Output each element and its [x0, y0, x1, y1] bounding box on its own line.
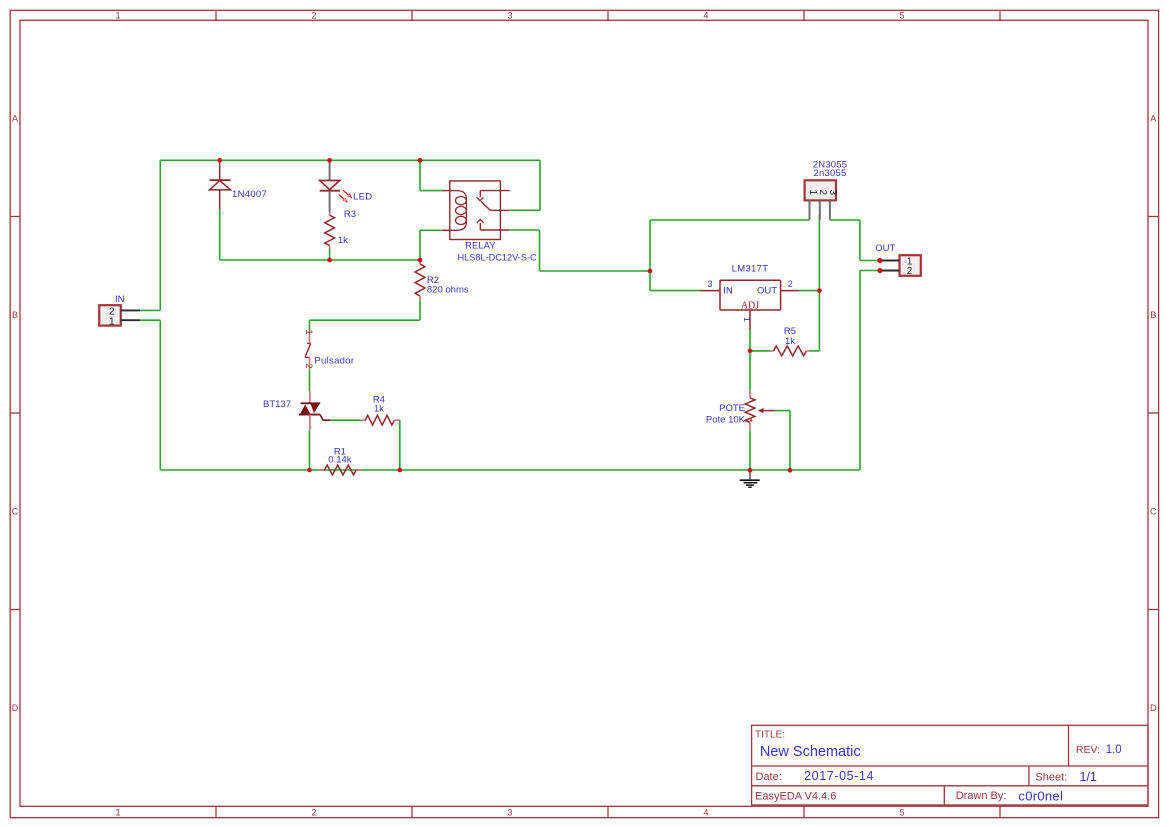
svg-text:OUT: OUT: [875, 243, 895, 254]
svg-text:Drawn By:: Drawn By:: [956, 790, 1007, 802]
svg-text:D: D: [12, 703, 19, 713]
svg-text:C: C: [1150, 507, 1157, 517]
svg-text:OUT: OUT: [757, 285, 777, 296]
svg-text:REV:: REV:: [1076, 744, 1100, 756]
svg-text:Pulsador: Pulsador: [314, 356, 354, 367]
svg-text:1: 1: [115, 11, 120, 21]
svg-text:820 ohms: 820 ohms: [427, 284, 469, 295]
svg-text:A: A: [12, 114, 18, 124]
svg-text:TITLE:: TITLE:: [755, 730, 785, 741]
svg-text:2: 2: [311, 11, 316, 21]
svg-text:Date:: Date:: [756, 771, 782, 783]
svg-text:0.14k: 0.14k: [328, 455, 351, 466]
svg-text:4: 4: [703, 11, 708, 21]
svg-text:1k: 1k: [338, 235, 348, 246]
svg-text:1k: 1k: [374, 404, 384, 415]
svg-text:2n3055: 2n3055: [814, 168, 847, 179]
svg-text:LED: LED: [353, 192, 372, 203]
svg-text:ADJ: ADJ: [741, 300, 759, 311]
svg-text:1/1: 1/1: [1080, 770, 1097, 784]
svg-text:C: C: [12, 507, 19, 517]
svg-text:2: 2: [788, 279, 793, 289]
svg-text:D: D: [1150, 703, 1157, 713]
svg-text:1: 1: [807, 190, 818, 196]
svg-text:HLS8L-DC12V-S-C: HLS8L-DC12V-S-C: [458, 252, 538, 262]
svg-text:POTE: POTE: [719, 403, 745, 414]
svg-text:R3: R3: [344, 209, 356, 220]
svg-text:1: 1: [742, 317, 752, 322]
svg-text:1N4007: 1N4007: [232, 189, 267, 200]
svg-text:2017-05-14: 2017-05-14: [804, 769, 874, 783]
svg-text:IN: IN: [723, 285, 733, 296]
svg-text:Pote 10K: Pote 10K: [706, 415, 746, 426]
svg-text:5: 5: [899, 11, 904, 21]
svg-text:1.0: 1.0: [1106, 744, 1122, 756]
svg-text:RELAY: RELAY: [465, 241, 496, 252]
svg-text:LM317T: LM317T: [732, 264, 769, 275]
svg-text:4: 4: [703, 808, 708, 818]
svg-text:3: 3: [507, 808, 512, 818]
svg-text:1k: 1k: [785, 336, 795, 347]
svg-text:IN: IN: [115, 294, 125, 305]
svg-text:New Schematic: New Schematic: [760, 744, 861, 760]
svg-text:1: 1: [115, 808, 120, 818]
svg-text:3: 3: [707, 279, 712, 289]
svg-text:2: 2: [304, 363, 314, 368]
svg-text:1: 1: [109, 317, 115, 328]
svg-text:5: 5: [899, 808, 904, 818]
svg-text:2: 2: [907, 266, 913, 277]
svg-text:1: 1: [304, 329, 314, 334]
svg-text:3: 3: [507, 11, 512, 21]
svg-text:2: 2: [311, 808, 316, 818]
svg-text:3: 3: [827, 190, 838, 196]
svg-text:2: 2: [817, 190, 828, 196]
svg-text:c0r0nel: c0r0nel: [1018, 788, 1063, 803]
svg-text:Sheet:: Sheet:: [1035, 772, 1067, 784]
svg-text:BT137: BT137: [263, 399, 291, 410]
svg-text:A: A: [1150, 114, 1156, 124]
svg-text:B: B: [1150, 310, 1156, 320]
svg-text:EasyEDA V4.4.6: EasyEDA V4.4.6: [755, 791, 836, 803]
svg-text:B: B: [12, 310, 18, 320]
